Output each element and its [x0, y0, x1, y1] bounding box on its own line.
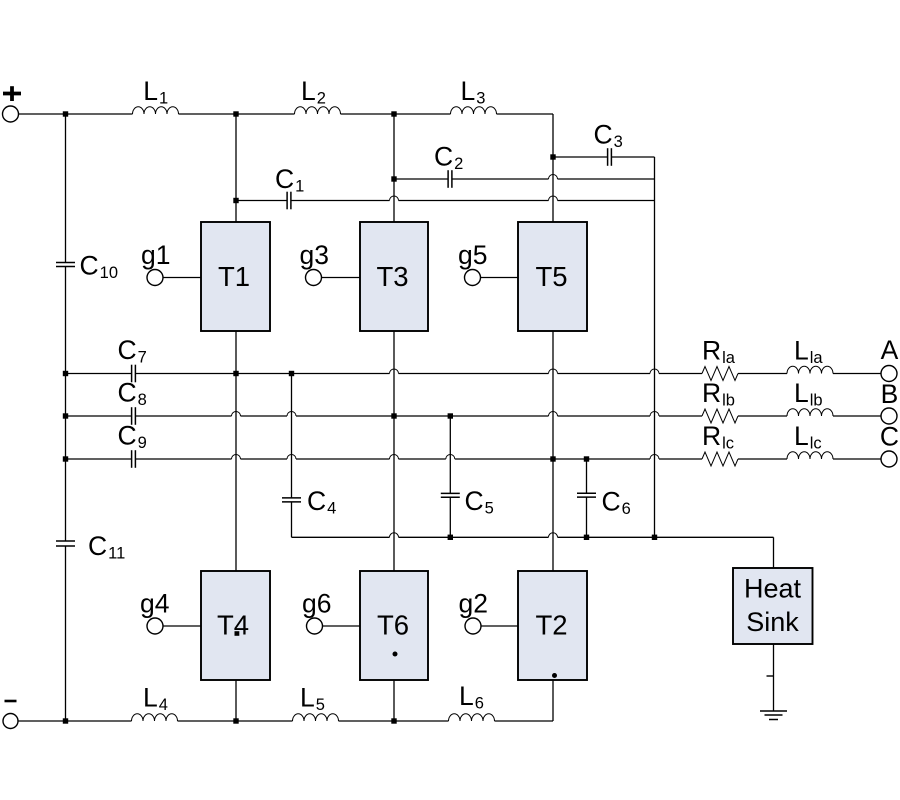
- svg-text:T2: T2: [535, 609, 567, 640]
- svg-text:T3: T3: [376, 261, 408, 292]
- svg-text:T4: T4: [217, 609, 249, 640]
- svg-text:g3: g3: [300, 240, 329, 270]
- svg-text:T6: T6: [377, 609, 409, 640]
- svg-text:g1: g1: [141, 240, 170, 270]
- svg-text:A: A: [881, 335, 899, 365]
- svg-text:Sink: Sink: [746, 607, 799, 637]
- svg-text:B: B: [881, 379, 899, 409]
- svg-text:g6: g6: [302, 589, 331, 619]
- svg-text:g2: g2: [459, 589, 488, 619]
- svg-text:Heat: Heat: [744, 574, 802, 604]
- svg-text:T1: T1: [218, 261, 250, 292]
- svg-text:g4: g4: [140, 589, 169, 619]
- svg-text:C: C: [880, 422, 899, 452]
- svg-text:g5: g5: [458, 240, 487, 270]
- svg-text:T5: T5: [535, 261, 567, 292]
